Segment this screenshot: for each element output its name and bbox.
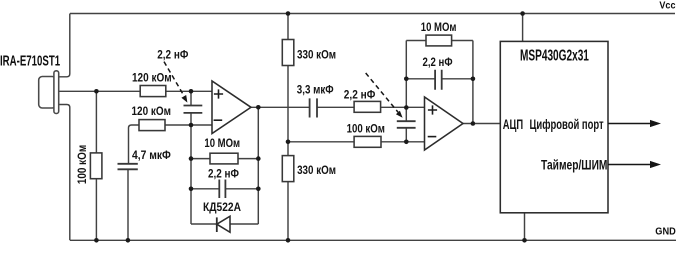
svg-text:MSP430G2x31: MSP430G2x31 [520,46,589,64]
svg-text:10 МОм: 10 МОм [421,21,457,34]
svg-text:2,2 нФ: 2,2 нФ [423,56,453,69]
svg-text:330 кОм: 330 кОм [297,49,336,62]
svg-text:2,2 нФ: 2,2 нФ [344,89,376,102]
svg-text:100 кОм: 100 кОм [347,123,385,136]
svg-text:IRA-E710ST1: IRA-E710ST1 [0,52,60,68]
svg-text:3,3 мкФ: 3,3 мкФ [297,84,334,97]
svg-text:Vcc: Vcc [659,0,676,12]
svg-text:120 кОм: 120 кОм [132,105,171,118]
svg-text:4,7 мкФ: 4,7 мкФ [132,150,171,163]
svg-text:Таймер/ШИМ: Таймер/ШИМ [541,157,607,173]
svg-text:GND: GND [655,226,675,238]
svg-text:АЦП: АЦП [503,116,523,132]
svg-text:330 кОм: 330 кОм [297,164,336,177]
svg-text:10 МОм: 10 МОм [204,137,240,150]
svg-text:2,2 нФ: 2,2 нФ [157,49,189,62]
svg-text:2,2 нФ: 2,2 нФ [208,168,239,181]
svg-text:Цифровой порт: Цифровой порт [530,116,604,132]
svg-text:100 кОм: 100 кОм [76,145,89,184]
svg-text:КД522А: КД522А [203,201,241,214]
svg-text:120 кОм: 120 кОм [132,72,172,85]
